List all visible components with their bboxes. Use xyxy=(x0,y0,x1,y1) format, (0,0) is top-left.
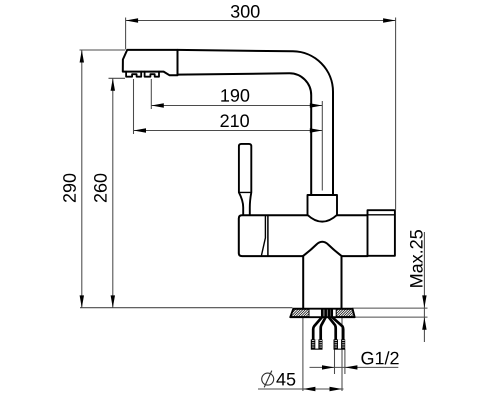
ext line 290 top xyxy=(80,49,126,51)
dim 210 line xyxy=(134,130,323,132)
lever seam xyxy=(239,191,251,193)
dim 300 line xyxy=(126,20,396,22)
hose wall s1 xyxy=(313,309,322,340)
ext line d45 right xyxy=(341,318,343,392)
arrow G12 left (points right) xyxy=(322,365,335,369)
column left edge xyxy=(302,256,304,308)
connector left (threaded nut, sectioned) xyxy=(311,339,323,349)
aerator tab right xyxy=(145,72,159,77)
spout tube inner edge (bottom + inner elbow + left side down to collar) xyxy=(178,73,312,195)
arrow G12 right (points left) xyxy=(345,365,358,369)
dim G12 line xyxy=(310,366,399,368)
arrow 300 left xyxy=(126,18,139,22)
arrow 260 bottom xyxy=(111,295,115,308)
aerator tab left xyxy=(126,72,141,77)
spout head xyxy=(123,50,178,75)
escutcheon plate xyxy=(290,309,355,318)
ext line spout centre xyxy=(321,101,323,191)
arrow d45 right (points right) xyxy=(330,387,343,391)
label Max.25 (rotated) xyxy=(410,230,423,287)
ext line 260 top xyxy=(109,77,126,79)
label 210 xyxy=(221,114,249,127)
label 290 (rotated) xyxy=(63,174,76,202)
handle base diagonal seam xyxy=(262,216,266,255)
hose wall s3 xyxy=(329,309,336,340)
arrow 300 right xyxy=(383,18,396,22)
arrow 210 left xyxy=(134,128,147,132)
ext line d45 left xyxy=(302,318,304,392)
hose wall s4 xyxy=(332,309,344,340)
ext line 300 left xyxy=(125,18,127,50)
label G1/2 xyxy=(361,351,398,364)
cap band (body top line through cap) xyxy=(368,214,395,216)
dim 190 line xyxy=(151,105,322,107)
spout tube outer edge (top + elbow + right side down to collar) xyxy=(178,50,334,195)
arrow d45 left (points left) xyxy=(303,387,316,391)
lever handle xyxy=(239,144,251,215)
dim 290 line xyxy=(81,50,83,308)
arrow 260 top xyxy=(111,78,115,91)
hose wall s2 xyxy=(321,309,326,340)
label 45 xyxy=(276,373,295,386)
dim Max.25 line xyxy=(423,232,425,342)
ext line G12 left xyxy=(334,349,336,374)
column right edge xyxy=(341,256,343,308)
label 190 xyxy=(221,89,249,102)
countertop line left xyxy=(80,307,293,309)
arrow Max25 up xyxy=(422,317,426,330)
connector right (threaded nut, sectioned) xyxy=(334,339,346,349)
label 300 xyxy=(231,5,260,18)
plate hatch left xyxy=(291,309,309,316)
arrow Max25 down xyxy=(422,295,426,308)
diameter symbol xyxy=(262,371,274,388)
countertop line right / plate top extension xyxy=(353,307,428,309)
dim 260 line xyxy=(112,78,114,308)
arrow 190 right xyxy=(310,103,323,107)
ext line 190 (right tab notch) xyxy=(150,79,152,109)
arrow 290 top xyxy=(80,50,84,63)
plate bottom extension xyxy=(355,316,428,318)
ext line 210 (left tab notch) xyxy=(133,79,135,134)
collar under spout xyxy=(308,195,338,222)
saddle arch between body and column xyxy=(303,242,342,256)
dim d45 line xyxy=(258,388,344,390)
arrow 290 bottom xyxy=(80,295,84,308)
arrow 210 right xyxy=(310,128,323,132)
right end cap xyxy=(368,210,395,256)
label 260 (rotated) xyxy=(94,174,107,202)
ext line 300 right xyxy=(395,18,397,210)
body main outline xyxy=(239,215,308,256)
plate hatch right xyxy=(336,309,354,316)
left cap seam xyxy=(267,215,269,256)
ext line G12 right xyxy=(344,349,346,374)
arrow 190 left xyxy=(151,103,164,107)
